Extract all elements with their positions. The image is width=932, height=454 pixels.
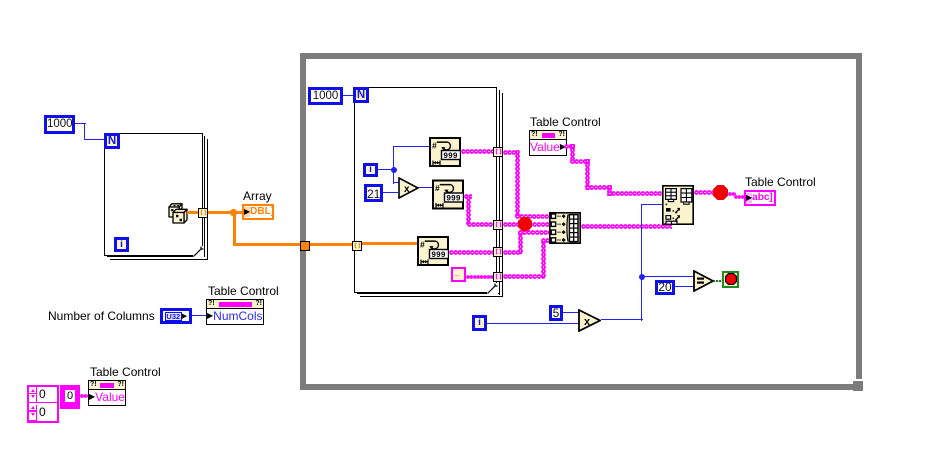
svg-text:999: 999 <box>446 195 461 204</box>
svg-text:x: x <box>584 316 591 328</box>
svg-text:#: # <box>432 141 437 151</box>
svg-text:999: 999 <box>431 251 446 260</box>
svg-text:#: # <box>420 240 425 250</box>
svg-text:999: 999 <box>443 152 458 161</box>
svg-text:x: x <box>404 184 410 195</box>
svg-text:#: # <box>435 183 440 193</box>
